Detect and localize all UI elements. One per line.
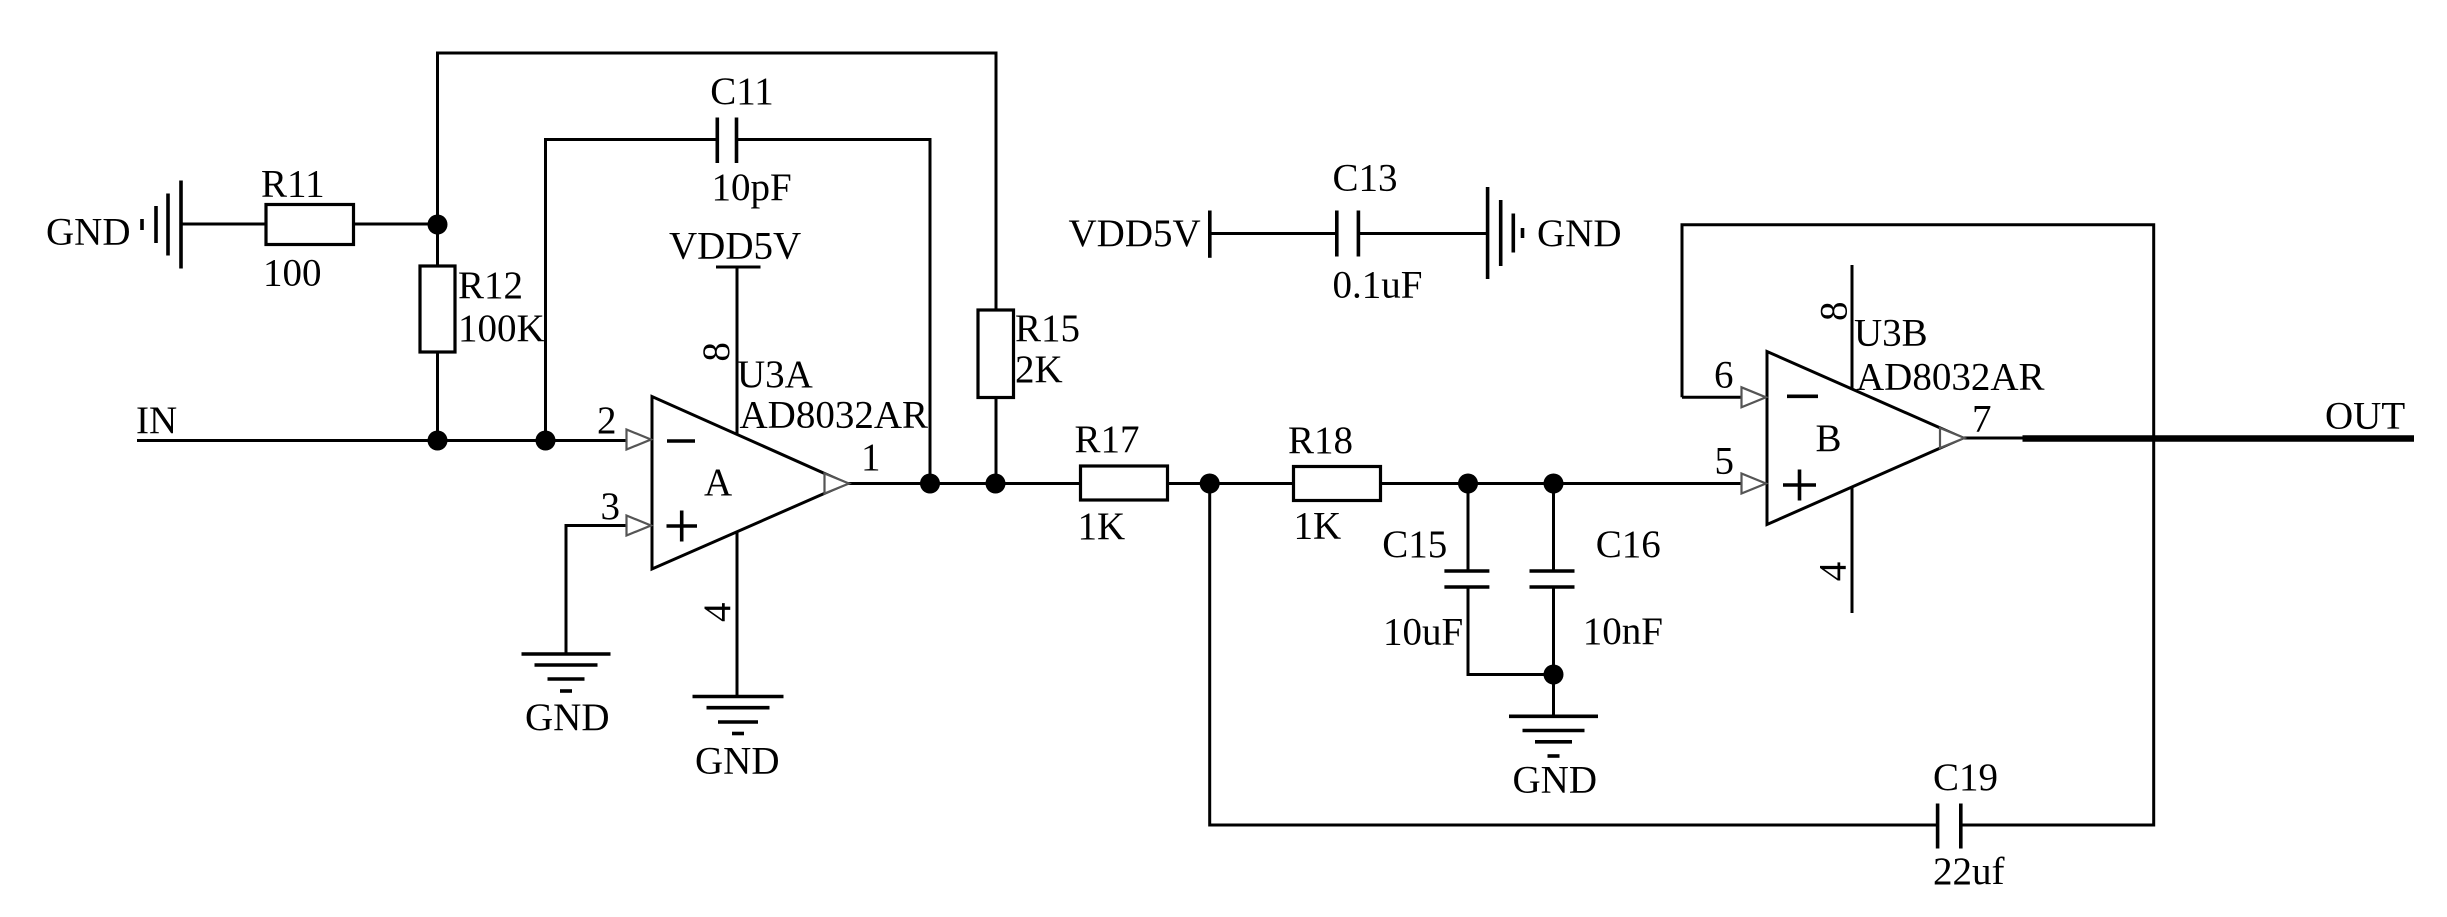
svg-text:R12: R12 (458, 264, 523, 307)
svg-text:0.1uF: 0.1uF (1333, 264, 1423, 307)
svg-text:U3A: U3A (737, 353, 813, 396)
svg-text:5: 5 (1715, 440, 1735, 483)
svg-text:B: B (1816, 417, 1842, 460)
svg-text:GND: GND (1537, 212, 1622, 255)
svg-text:R15: R15 (1015, 307, 1080, 350)
svg-text:3: 3 (601, 485, 621, 528)
svg-text:GND: GND (46, 211, 131, 254)
svg-text:2: 2 (597, 399, 617, 442)
svg-text:1K: 1K (1078, 505, 1126, 548)
svg-text:U3B: U3B (1854, 312, 1928, 355)
svg-text:OUT: OUT (2325, 395, 2405, 438)
svg-text:IN: IN (136, 399, 177, 442)
svg-text:A: A (704, 461, 732, 504)
svg-text:10pF: 10pF (712, 166, 792, 209)
svg-text:C19: C19 (1933, 756, 1998, 799)
svg-text:22uf: 22uf (1933, 850, 2005, 893)
svg-text:1K: 1K (1294, 505, 1342, 548)
svg-text:AD8032AR: AD8032AR (1856, 356, 2045, 399)
svg-text:VDD5V: VDD5V (1069, 212, 1201, 255)
svg-text:R11: R11 (261, 163, 325, 206)
svg-text:2K: 2K (1015, 348, 1063, 391)
svg-text:C11: C11 (710, 70, 774, 113)
svg-text:8: 8 (1812, 301, 1855, 321)
svg-text:100K: 100K (458, 307, 545, 350)
svg-text:100: 100 (263, 252, 322, 295)
svg-text:GND: GND (525, 696, 610, 739)
svg-text:VDD5V: VDD5V (669, 225, 801, 268)
svg-text:AD8032AR: AD8032AR (740, 394, 929, 437)
svg-text:4: 4 (1811, 562, 1854, 582)
svg-text:C16: C16 (1596, 523, 1661, 566)
svg-text:10nF: 10nF (1583, 610, 1663, 653)
svg-text:C15: C15 (1382, 523, 1447, 566)
svg-text:1: 1 (861, 436, 881, 479)
svg-text:R18: R18 (1288, 419, 1353, 462)
svg-text:8: 8 (695, 342, 738, 362)
svg-text:C13: C13 (1333, 157, 1398, 200)
svg-text:10uF: 10uF (1383, 611, 1463, 654)
svg-text:R17: R17 (1075, 418, 1140, 461)
svg-text:4: 4 (696, 602, 739, 622)
svg-text:GND: GND (1513, 759, 1598, 802)
svg-text:GND: GND (695, 740, 780, 783)
svg-text:6: 6 (1714, 354, 1734, 397)
svg-text:7: 7 (1972, 398, 1992, 441)
